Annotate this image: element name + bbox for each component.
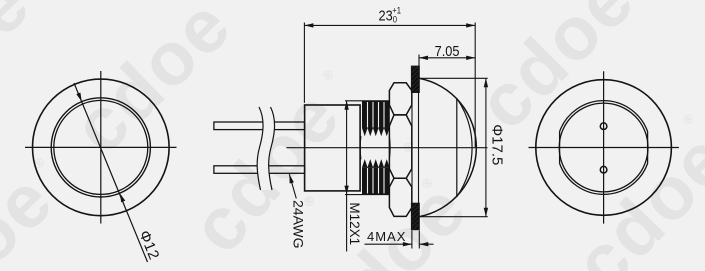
- gasket washer bottom section: [411, 203, 419, 230]
- front view button ring circles: [51, 98, 150, 197]
- rear view outer circle: [536, 80, 672, 216]
- dimension 7.05 extension line left: [418, 55, 420, 67]
- 24AWG leader arrow: [289, 174, 296, 198]
- dimension phi17.5 extension top: [420, 77, 488, 79]
- dimension 23 label: [379, 5, 402, 25]
- svg-text:4MAX: 4MAX: [367, 229, 406, 244]
- svg-text:cdoe: cdoe: [57, 0, 247, 169]
- dimension M12X1 line: [344, 101, 348, 252]
- middle view centerline: [286, 147, 487, 149]
- svg-text:7.05: 7.05: [435, 42, 460, 59]
- gasket washer middle outline: [412, 93, 419, 204]
- switch body: [305, 105, 361, 191]
- dimension 4MAX extension left: [411, 231, 413, 249]
- rear view flat-sided ring: [560, 101, 648, 195]
- thread root right arc: [388, 136, 391, 159]
- rear view inner circle: [559, 103, 648, 192]
- dimension phi17.5 extension bottom: [420, 216, 488, 218]
- thread upper band: [362, 101, 390, 137]
- svg-text:Φ12: Φ12: [135, 228, 162, 262]
- dimension 23/7.05 extension line right: [474, 23, 476, 148]
- button face arc: [457, 98, 472, 196]
- front view horizontal centerline: [25, 146, 177, 148]
- dome cap outline: [419, 78, 476, 216]
- thread lower band: [362, 159, 390, 195]
- svg-text:23: 23: [379, 6, 393, 23]
- dimension 4MAX line: [365, 242, 434, 246]
- svg-text:0: 0: [393, 14, 398, 25]
- svg-text:24AWG: 24AWG: [291, 200, 307, 249]
- svg-text:M12X1: M12X1: [347, 202, 362, 245]
- dimension 7.05 line: [419, 56, 475, 60]
- rear view vertical centerline: [603, 71, 605, 223]
- gasket washer top section: [411, 66, 419, 92]
- rear view terminal hole bottom: [600, 166, 607, 173]
- dimension phi12 diagonal line: [74, 83, 148, 262]
- thread root left arc: [359, 136, 362, 159]
- dimension 4MAX extension right: [418, 231, 420, 249]
- rear view horizontal centerline: [529, 147, 679, 149]
- thread crest bottom line: [345, 194, 390, 196]
- front view vertical centerline: [100, 71, 102, 224]
- svg-text:®: ®: [400, 138, 418, 156]
- svg-text:cdoe: cdoe: [0, 0, 46, 148]
- wire 1: [214, 122, 305, 130]
- button face chord: [456, 98, 458, 196]
- front view outer circle: [33, 79, 170, 216]
- svg-text:Φ17.5: Φ17.5: [488, 124, 505, 165]
- dimension 23 line: [304, 23, 475, 27]
- hex nut: [389, 83, 411, 217]
- dimension phi12 arrowheads: [76, 92, 125, 202]
- dimension phi17.5 line: [484, 78, 488, 216]
- wire break symbol: [257, 107, 274, 190]
- svg-text:®: ®: [320, 66, 338, 84]
- wire 2: [214, 166, 305, 174]
- dimension 23 extension line left: [303, 23, 305, 103]
- svg-text:cdoe: cdoe: [558, 116, 705, 271]
- thread crest top line: [345, 100, 390, 102]
- rear view terminal hole top: [600, 123, 607, 130]
